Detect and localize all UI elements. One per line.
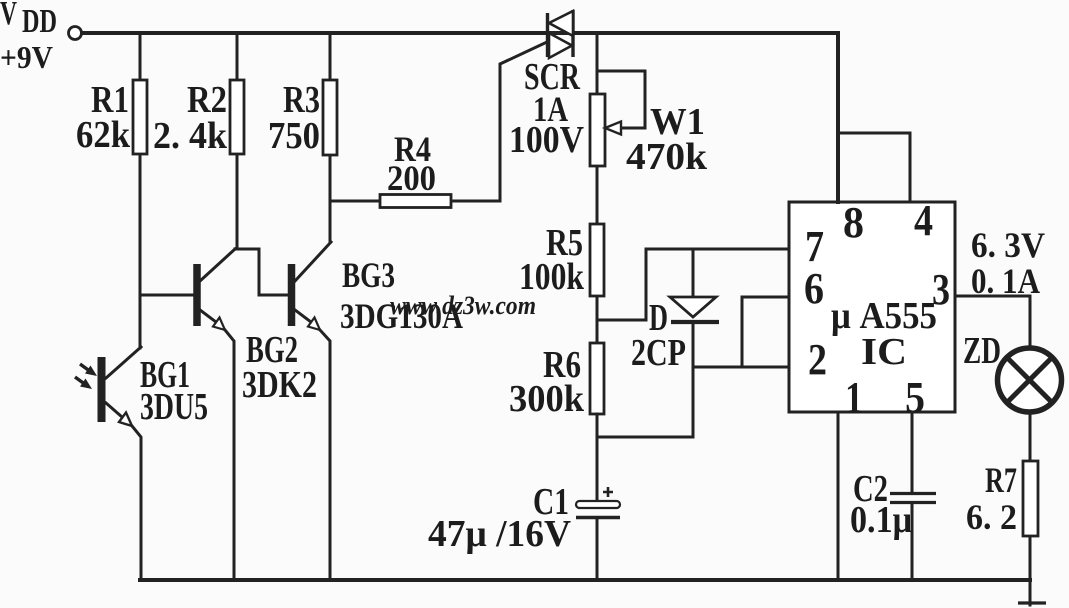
wire R6 bottom to diode/C1 junction [597, 436, 693, 439]
svg-text:200: 200 [387, 158, 436, 198]
thyristor SCR [509, 10, 584, 161]
resistor R3 [268, 33, 337, 242]
svg-text:4: 4 [914, 196, 933, 245]
resistor R6 [509, 343, 604, 501]
wire pin 6 loop [742, 297, 789, 367]
svg-text:www.dz3w.com: www.dz3w.com [390, 291, 536, 320]
wire SCR gate [500, 42, 547, 201]
IC U1 uA555 timer [789, 196, 955, 422]
svg-text:6: 6 [804, 264, 824, 313]
label VDD [0, 0, 57, 75]
svg-text:V: V [0, 0, 17, 32]
wire pin 3 to lamp [955, 296, 1030, 348]
lamp ZD [963, 330, 1062, 412]
transistor BG2 [140, 249, 317, 580]
resistor R7 [966, 413, 1038, 605]
svg-text:IC: IC [861, 331, 907, 373]
svg-text:5: 5 [905, 373, 925, 422]
node VDD terminal [69, 27, 82, 40]
svg-text:62k: 62k [76, 114, 131, 156]
transistor BG3 [292, 242, 464, 580]
svg-text:0.1μ: 0.1μ [850, 499, 912, 541]
transistor BG1 phototransistor [75, 347, 208, 580]
ground end bar [1018, 601, 1046, 604]
resistor R1 [76, 33, 147, 348]
svg-text:750: 750 [268, 115, 320, 157]
svg-text:BG3: BG3 [342, 255, 395, 295]
diode D 2CP [631, 249, 719, 437]
wire pin 1 [837, 412, 840, 580]
resistor R5 [519, 222, 604, 343]
svg-text:470k: 470k [626, 136, 708, 178]
resistor R4 [330, 129, 500, 208]
capacitor C2 [850, 468, 936, 541]
wire top rail [82, 31, 838, 35]
wire pin 7 [646, 248, 789, 251]
svg-text:2CP: 2CP [631, 332, 686, 374]
wire pin 8 from rail [836, 33, 840, 202]
svg-text:3DU5: 3DU5 [140, 386, 208, 428]
svg-text:300k: 300k [509, 378, 585, 420]
wire R5-R6 junction to pin7 riser [597, 249, 646, 320]
svg-text:8: 8 [843, 198, 864, 247]
svg-text:1: 1 [845, 373, 863, 422]
wire pin 4 bracket [838, 133, 910, 202]
svg-text:2: 2 [808, 335, 827, 384]
wire bottom rail [140, 578, 1030, 582]
svg-text:100V: 100V [509, 119, 584, 161]
capacitor C1 [428, 481, 620, 580]
svg-text:0. 1A: 0. 1A [971, 261, 1040, 301]
svg-text:R7: R7 [985, 460, 1017, 500]
resistor R2 [153, 33, 244, 249]
svg-text:6. 3V: 6. 3V [971, 225, 1045, 265]
wire pin 2 [693, 366, 789, 369]
svg-text:47μ /16V: 47μ /16V [428, 513, 572, 555]
svg-text:ZD: ZD [963, 330, 1001, 372]
svg-text:DD: DD [22, 3, 57, 40]
potentiometer W1 [590, 33, 708, 224]
svg-text:3DK2: 3DK2 [242, 364, 317, 406]
svg-text:6. 2: 6. 2 [966, 497, 1017, 537]
svg-text:2. 4k: 2. 4k [153, 115, 228, 157]
wire pin 5 [911, 412, 914, 580]
svg-text:+9V: +9V [0, 39, 53, 75]
